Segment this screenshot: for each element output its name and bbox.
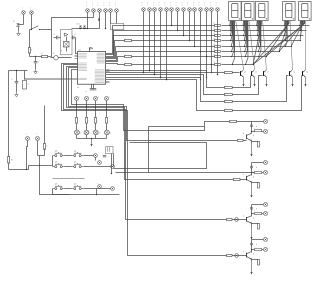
resistor RE6 <box>251 141 253 144</box>
wire <box>29 165 53 167</box>
wire <box>110 13 112 24</box>
svg-text:c: c <box>199 2 200 4</box>
connector OUT8b <box>263 211 267 215</box>
wire <box>91 85 93 89</box>
segment bus wire 2 <box>106 31 215 55</box>
wire <box>87 13 89 18</box>
svg-text:c: c <box>170 2 171 4</box>
wire drop K7 <box>177 12 179 31</box>
svg-text:b: b <box>243 133 244 135</box>
segment bus wire 4 <box>106 41 215 58</box>
inline connector V1 <box>235 218 239 222</box>
connector K8 <box>182 8 186 12</box>
svg-text:c: c <box>142 2 143 4</box>
wire osc to U1 <box>76 38 78 54</box>
connector K4 <box>159 8 163 12</box>
connector OUT6a <box>263 119 267 123</box>
pushbutton S7 <box>72 188 74 190</box>
wire <box>38 155 45 157</box>
resistor R9 <box>215 64 221 66</box>
power arrow <box>305 77 307 87</box>
wire drop K2 <box>149 12 151 71</box>
wire <box>251 240 253 253</box>
resistor RB4 <box>225 100 233 102</box>
svg-text:c: c <box>204 5 205 7</box>
wire <box>251 205 253 217</box>
wire <box>66 37 68 42</box>
switch S1 <box>31 29 32 30</box>
connector L3 <box>94 97 98 101</box>
wire <box>30 56 42 58</box>
connector K2 <box>148 8 152 12</box>
connector OUT7b <box>263 170 267 174</box>
wire <box>111 154 113 174</box>
power arrow <box>292 77 294 87</box>
base wire Q1 <box>106 72 225 74</box>
resistor RB2 <box>225 86 233 88</box>
svg-text:c: c <box>97 183 98 185</box>
inductor L6 <box>255 130 262 132</box>
ground <box>16 92 18 95</box>
svg-text:c: c <box>109 5 110 7</box>
wire <box>105 13 107 29</box>
svg-text:c: c <box>98 5 99 7</box>
resistor R8 <box>215 56 221 58</box>
wire <box>53 189 70 195</box>
resistor R5 <box>215 40 221 42</box>
segment bus wire 4 right <box>222 40 301 42</box>
wire loop middle <box>114 143 207 169</box>
svg-text:q: q <box>253 135 254 137</box>
svg-text:c: c <box>98 3 99 5</box>
wire drop K13 <box>211 12 213 73</box>
LED D8 <box>105 130 110 135</box>
svg-text:c: c <box>142 5 143 7</box>
svg-text:c: c <box>176 5 177 7</box>
connector L4 <box>105 97 109 101</box>
svg-text:c: c <box>204 2 205 4</box>
svg-text:c: c <box>187 5 188 7</box>
connector K1 <box>142 8 146 12</box>
svg-text:c c: c c <box>85 91 87 93</box>
svg-text:d: d <box>89 132 90 134</box>
wire <box>66 47 68 52</box>
segment bus wire 5 <box>106 47 215 59</box>
resistor RL1 <box>75 118 77 124</box>
wire <box>86 135 88 139</box>
wire drop K1 <box>143 12 145 73</box>
pushbutton S3 <box>72 155 74 157</box>
wire <box>76 135 78 139</box>
transistor Q3 <box>263 71 265 76</box>
wire <box>251 163 253 176</box>
base wire Q4 <box>106 78 225 102</box>
wire <box>86 124 88 131</box>
wire <box>88 17 94 19</box>
wire <box>93 13 95 18</box>
connector OUT6b <box>263 129 267 133</box>
resistor RL4 <box>105 118 107 124</box>
connector K6 <box>170 8 174 12</box>
svg-text:c: c <box>210 2 211 4</box>
base wire Q2 <box>106 71 225 88</box>
wire <box>62 64 247 256</box>
svg-text:d: d <box>256 126 257 128</box>
wire from above <box>44 106 46 144</box>
segment bus wire 1 right <box>222 25 310 27</box>
transistor cluster Q8 <box>252 204 264 206</box>
svg-text:d: d <box>256 167 257 169</box>
wire <box>116 13 118 24</box>
svg-text:c: c <box>36 133 37 135</box>
svg-text:b: b <box>243 215 244 217</box>
inline connector V2 <box>235 254 239 258</box>
resistor RB5 <box>225 109 233 111</box>
transistor Q9 symbol <box>246 253 248 258</box>
wire <box>233 72 240 74</box>
relay box <box>106 147 114 154</box>
svg-text:c: c <box>86 5 87 7</box>
series component r <box>125 39 132 41</box>
wire <box>9 169 27 171</box>
pushbutton S4 <box>53 166 55 168</box>
junction <box>87 28 88 29</box>
transistor Q6 symbol <box>246 135 248 140</box>
connector P1 <box>86 9 90 13</box>
inductor L8 <box>255 213 262 215</box>
power arrow <box>254 77 256 87</box>
wire <box>113 154 115 167</box>
base wire Q3 <box>106 75 225 95</box>
svg-text:c: c <box>147 2 148 4</box>
svg-text:c: c <box>159 2 160 4</box>
wire <box>31 15 33 30</box>
svg-text:c: c <box>26 133 27 135</box>
power box outline <box>52 18 88 58</box>
transistor Q5 <box>302 71 304 76</box>
segment bus wire 7 right <box>222 56 267 58</box>
svg-text:c: c <box>193 2 194 4</box>
capacitor C3 <box>72 36 74 40</box>
wire <box>23 15 25 25</box>
wire <box>95 101 97 118</box>
inductor L9 <box>255 249 262 251</box>
svg-text:c: c <box>153 2 154 4</box>
junction <box>39 165 40 166</box>
connector K7 <box>176 8 180 12</box>
power arrow <box>266 77 268 87</box>
supply pair wires <box>25 78 78 80</box>
svg-text:o: o <box>61 50 62 52</box>
junction <box>16 70 17 71</box>
LED D6 <box>84 130 89 135</box>
wire drop K4 <box>160 12 162 78</box>
wire <box>69 68 247 141</box>
wire <box>93 85 95 89</box>
wire drop K11 <box>200 12 202 80</box>
segment bus wire 8 right <box>222 64 254 66</box>
wire drop K12 <box>206 12 208 78</box>
wire <box>39 156 41 166</box>
wire <box>233 76 251 88</box>
transistor Q7 symbol <box>246 176 248 181</box>
osc triangle <box>64 33 68 36</box>
resistor on cluster1 feed <box>230 120 237 122</box>
display DS4 <box>283 2 296 21</box>
ground <box>35 69 37 72</box>
LED common wire <box>77 138 107 140</box>
resistor RE8 <box>251 224 253 227</box>
wire <box>233 76 263 95</box>
svg-text:c: c <box>115 3 116 5</box>
power arrow <box>243 77 245 87</box>
wire <box>27 166 29 170</box>
svg-text:c: c <box>153 5 154 7</box>
wire <box>106 124 108 131</box>
power arrow down <box>251 144 253 157</box>
wire <box>95 135 97 139</box>
microcontroller U1 <box>78 52 106 85</box>
connector T5 <box>111 187 115 191</box>
wire row3 bottom <box>70 194 97 196</box>
resistor R2 <box>215 25 221 27</box>
junction <box>84 28 85 29</box>
wire <box>106 135 108 139</box>
resistor RB3 <box>225 93 233 95</box>
resistor RL2 <box>85 118 87 124</box>
wire <box>40 166 70 195</box>
wire <box>76 124 78 131</box>
wire <box>30 29 32 31</box>
svg-text:c: c <box>22 8 23 10</box>
svg-text:c: c <box>170 5 171 7</box>
power arrow down <box>251 185 253 198</box>
oscillator box <box>61 30 73 55</box>
resistor R4 <box>215 35 221 37</box>
display DS3 <box>256 2 269 21</box>
connector J1 <box>22 11 26 15</box>
connector T1 <box>94 154 98 158</box>
wire <box>64 65 247 220</box>
segment bus wire 5 right <box>222 46 292 48</box>
capacitor C2 <box>56 36 58 40</box>
diode D2 <box>42 55 48 57</box>
svg-text:c: c <box>109 3 110 5</box>
svg-text:c: c <box>182 2 183 4</box>
svg-text:c: c <box>164 2 165 4</box>
left rail wire <box>8 71 10 157</box>
display DS3 pin fan <box>256 20 258 22</box>
connector P6 <box>115 9 119 13</box>
transistor cluster Q9 <box>252 239 264 241</box>
connector OUT9b <box>263 247 267 251</box>
wire <box>8 163 10 170</box>
svg-text:q: q <box>253 218 254 220</box>
svg-text:b: b <box>243 174 244 176</box>
base wire Q5 <box>106 80 225 111</box>
svg-text:c: c <box>109 97 110 99</box>
transistor Q8 symbol <box>246 217 248 222</box>
wire left <box>9 70 28 72</box>
transistor Q2 <box>251 71 253 76</box>
capacitor C9 <box>95 158 97 161</box>
connector K16 <box>36 137 40 141</box>
wire <box>76 101 78 118</box>
svg-text:d: d <box>99 132 100 134</box>
svg-text:d: d <box>256 244 257 246</box>
supervisor box U2 <box>111 24 124 30</box>
connector OUT7a <box>263 160 267 164</box>
jumper mark <box>250 243 252 245</box>
svg-text:c: c <box>182 5 183 7</box>
transistor Q1 <box>240 71 242 76</box>
connector T4 <box>111 165 115 169</box>
transistor Q4 <box>289 71 291 76</box>
svg-text:c: c <box>115 5 116 7</box>
wire <box>44 149 46 156</box>
wire <box>67 67 247 180</box>
svg-text:c: c <box>210 5 211 7</box>
transistor cluster Q6 <box>252 121 264 123</box>
transistor cluster Q7 <box>252 162 264 164</box>
display DS1 pin fan <box>229 20 231 22</box>
resistor RB1 <box>225 71 233 73</box>
VCC rail wire <box>72 28 100 30</box>
connector P3 <box>98 9 102 13</box>
wire <box>18 27 20 31</box>
series resistor <box>227 219 233 221</box>
segment bus wire 3 right <box>222 35 304 37</box>
svg-text:c: c <box>104 3 105 5</box>
svg-text:d: d <box>256 208 257 210</box>
capacitor C8 <box>43 144 45 150</box>
diode D4 <box>83 26 85 29</box>
wire <box>19 24 24 26</box>
svg-text:d: d <box>110 132 111 134</box>
svg-text:c: c <box>86 3 87 5</box>
jumper mark <box>250 207 252 209</box>
svg-text:c: c <box>159 5 160 7</box>
connector P5 <box>109 9 113 13</box>
connector J2 <box>30 11 34 15</box>
segment bus wire 3 <box>106 36 215 57</box>
capacitor C5 <box>93 88 97 90</box>
segment bus wire 7 <box>106 57 215 62</box>
power arrow down <box>251 262 253 275</box>
wire drop K10 <box>194 12 196 47</box>
wire <box>27 141 28 170</box>
svg-text:c: c <box>79 97 80 99</box>
LED D5 <box>75 130 80 135</box>
segment bus wire 6 right <box>222 51 280 53</box>
svg-text:c: c <box>98 97 99 99</box>
display DS5 pin fan <box>299 20 301 22</box>
svg-text:c: c <box>187 2 188 4</box>
wire drop K3 <box>154 12 156 75</box>
resistor R7 <box>215 51 221 53</box>
connector K9 <box>188 8 192 12</box>
wire <box>40 29 52 31</box>
U1 right pin names <box>97 52 105 54</box>
wire <box>95 124 97 131</box>
wire <box>86 101 88 118</box>
svg-text:c: c <box>193 5 194 7</box>
series resistor <box>227 255 233 257</box>
pushbutton S6 <box>53 188 55 190</box>
capacitor C1 <box>35 57 37 62</box>
button wiring <box>52 156 54 167</box>
connector P2 <box>92 9 96 13</box>
connector P4 <box>104 9 108 13</box>
connector OUT8a <box>263 202 267 206</box>
wire <box>29 53 31 57</box>
connector K15 <box>26 137 30 141</box>
connector K13 <box>210 8 214 12</box>
wire drop K6 <box>171 12 173 26</box>
svg-text:q: q <box>253 176 254 178</box>
segment bus wire 8 <box>106 64 215 65</box>
connector K11 <box>199 8 203 12</box>
jumper mark <box>250 125 252 127</box>
wire <box>233 76 302 111</box>
connector T3 <box>98 185 102 189</box>
resistor R3 <box>215 30 221 32</box>
diode D3 <box>79 26 81 29</box>
svg-text:c: c <box>104 5 105 7</box>
wire <box>53 178 85 180</box>
display DS1 <box>229 2 242 21</box>
wire drop K9 <box>189 12 191 41</box>
svg-text:c: c <box>108 157 109 159</box>
wire <box>251 122 253 134</box>
series component r <box>125 55 132 57</box>
diode D1 <box>17 24 20 27</box>
fuse F1 <box>54 56 58 60</box>
connector T2 <box>98 161 102 165</box>
svg-text:d: d <box>80 132 81 134</box>
svg-text:c: c <box>176 2 177 4</box>
wire corner middle <box>149 127 205 173</box>
svg-text:c: c <box>216 5 217 7</box>
wire drop K5 <box>166 12 168 80</box>
svg-text:c: c <box>92 5 93 7</box>
connector K10 <box>193 8 197 12</box>
segment bus wire 1 <box>106 26 215 54</box>
pushbutton S2 <box>53 155 55 157</box>
connector OUT9a <box>263 237 267 241</box>
display DS2 pin fan <box>243 20 245 22</box>
junction <box>80 28 81 29</box>
jumper mark <box>250 166 252 168</box>
wire <box>48 56 51 58</box>
svg-text:c: c <box>216 2 217 4</box>
power flag <box>89 48 91 52</box>
svg-text:c: c <box>147 5 148 7</box>
segment bus wire 6 <box>106 52 215 61</box>
svg-text:c: c <box>30 8 31 10</box>
net arrow VCC wire <box>99 13 101 29</box>
svg-text:q: q <box>253 253 254 255</box>
svg-text:c: c <box>92 3 93 5</box>
connector K3 <box>153 8 157 12</box>
resistor RE9 <box>251 260 253 262</box>
segment bus wire 2 right <box>222 30 307 32</box>
junction dots LED column x bundle <box>76 104 77 105</box>
wire <box>72 70 252 131</box>
ground <box>18 31 20 34</box>
capacitor C4 <box>90 88 94 90</box>
wire cluster2 feed <box>116 172 255 174</box>
